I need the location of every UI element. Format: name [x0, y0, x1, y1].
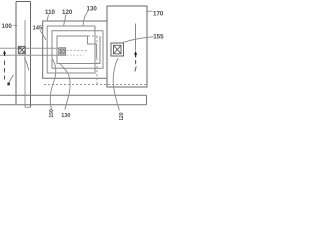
source electrode step	[88, 37, 97, 59]
section arrow right	[134, 51, 137, 58]
svg-text:155: 155	[153, 34, 164, 41]
leader 100	[14, 24, 18, 26]
nested rect r3	[52, 31, 103, 68]
leader 130 bottom	[60, 64, 70, 110]
contact C3 crosshatch	[111, 43, 124, 56]
leader 145	[40, 31, 46, 40]
inner strip of data line	[25, 20, 31, 107]
small leader near C1	[24, 58, 29, 71]
section line left (dashes)	[4, 61, 6, 80]
svg-text:100: 100	[2, 23, 13, 30]
section arrow left	[3, 50, 6, 56]
data line rectangle (tall left)	[16, 2, 31, 108]
section line right (dashes)	[135, 60, 136, 71]
dashed semiconductor outline	[44, 36, 147, 85]
svg-text:120: 120	[119, 112, 125, 120]
labels	[2, 5, 165, 120]
leader 150 bottom	[50, 59, 56, 109]
leader 155	[123, 37, 154, 43]
svg-text:130: 130	[87, 5, 98, 12]
svg-text:120: 120	[62, 9, 73, 16]
leader bottom right	[113, 58, 119, 110]
leader lines	[14, 11, 154, 111]
svg-text:110: 110	[45, 9, 56, 16]
svg-text:130: 130	[61, 113, 70, 119]
leader 130	[83, 11, 88, 25]
nested rect r2	[47, 26, 95, 73]
nested rect r4	[57, 36, 100, 64]
leader 170	[148, 10, 153, 12]
svg-text:150: 150	[49, 109, 55, 118]
pixel electrode (big right rect)	[107, 6, 147, 87]
leader 110	[47, 15, 48, 22]
section end marker	[7, 75, 13, 86]
contact C1 crosshatch	[18, 46, 25, 53]
dashed gate link to pixel	[67, 50, 88, 52]
nested rect r1	[43, 21, 107, 78]
svg-text:145: 145	[33, 25, 43, 31]
dotted lower gate edge	[67, 54, 85, 56]
bottom bus lines	[0, 95, 147, 105]
svg-text:170: 170	[153, 11, 164, 18]
gate line pair (left horizontal bus)	[0, 48, 59, 55]
leader 120	[64, 15, 66, 26]
contact C2 crosshatch	[59, 48, 66, 55]
